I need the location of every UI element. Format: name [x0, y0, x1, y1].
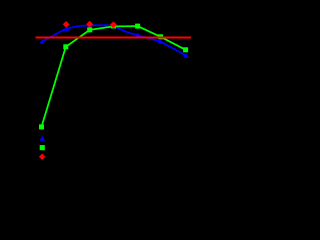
blue triangle marker 4 [111, 23, 117, 28]
blue triangle marker 5 [135, 33, 141, 38]
blue triangle marker 3 [87, 23, 93, 28]
green square marker 5 [135, 24, 140, 29]
red diamond marker 2 [86, 21, 93, 28]
legend red diamond [39, 154, 45, 160]
red horizontal reference line [36, 37, 192, 39]
blue triangle marker 1 [39, 39, 44, 44]
green square marker 3 [87, 27, 92, 32]
green line (square series) [42, 26, 186, 127]
red diamond marker 1 [63, 21, 70, 28]
green square marker 7 [183, 47, 188, 52]
blue triangle marker 7 [183, 53, 189, 58]
green square marker 6 [158, 34, 163, 39]
blue triangle marker 2 [63, 26, 69, 31]
blue triangle marker 6 [158, 39, 164, 44]
green square marker 1 [39, 124, 44, 129]
blue line (triangle series) [42, 25, 186, 55]
green square marker 2 [63, 44, 68, 49]
red diamond marker 3 [110, 21, 117, 28]
green square marker 4 [111, 24, 116, 29]
legend blue triangle [39, 136, 45, 141]
legend green square [40, 145, 45, 150]
